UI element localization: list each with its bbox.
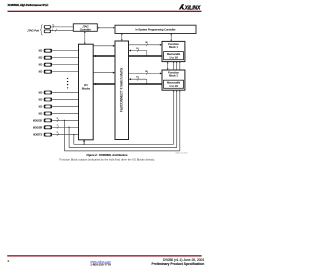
svg-text:1 to 18: 1 to 18: [169, 55, 178, 59]
svg-text:In-System Programming Controll: In-System Programming Controller: [136, 28, 176, 32]
svg-text:1-800-255-7778: 1-800-255-7778: [90, 262, 111, 266]
svg-text:Figure 2: XC9536XL Architectu: Figure 2: XC9536XL Architecture: [87, 153, 129, 157]
svg-text:FastCONNECT II Switch Matrix: FastCONNECT II Switch Matrix: [120, 67, 124, 112]
svg-text:I/O: I/O: [39, 105, 43, 109]
svg-text:36: 36: [145, 42, 148, 44]
svg-text:2: 2: [8, 259, 10, 263]
svg-text:Block 2: Block 2: [169, 74, 179, 78]
svg-text:I/O/GCK: I/O/GCK: [33, 118, 43, 122]
svg-text:XC9536XL High Performance CPLD: XC9536XL High Performance CPLD: [8, 3, 49, 7]
svg-text:36: 36: [145, 71, 148, 73]
svg-text:JTAG Port: JTAG Port: [27, 28, 39, 32]
svg-text:18: 18: [136, 48, 139, 50]
svg-text:I/O: I/O: [39, 56, 43, 60]
svg-text:I/O: I/O: [39, 112, 43, 116]
svg-text:1 to 18: 1 to 18: [169, 84, 178, 88]
svg-text:I/O: I/O: [39, 70, 43, 74]
svg-text:ds056_02_0601: ds056_02_0601: [175, 152, 187, 154]
svg-text:Controller: Controller: [80, 28, 91, 31]
svg-text:I/O/GTS: I/O/GTS: [33, 133, 42, 137]
svg-text:Block 1: Block 1: [169, 45, 179, 49]
svg-text:18: 18: [136, 77, 139, 79]
svg-text:I/O: I/O: [39, 63, 43, 67]
svg-text:I/O: I/O: [39, 98, 43, 102]
svg-text:I/O: I/O: [39, 91, 43, 95]
svg-text:Preliminary Product Specificat: Preliminary Product Specification: [152, 262, 205, 266]
svg-text:Blocks: Blocks: [82, 86, 91, 90]
svg-text:Function Block outputs (indica: Function Block outputs (indicated by the…: [60, 157, 156, 161]
svg-text:I/O/GSR: I/O/GSR: [33, 125, 42, 129]
svg-text:I/O: I/O: [39, 49, 43, 53]
